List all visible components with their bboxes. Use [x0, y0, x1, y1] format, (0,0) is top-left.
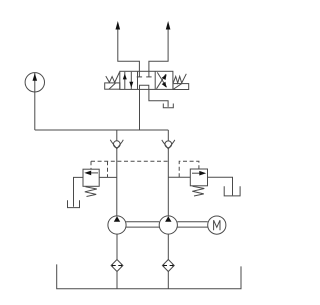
check valve CV1	[110, 140, 123, 149]
pump P1 (circle with up arrow)	[25, 73, 44, 130]
relief valve RV1 spring	[85, 187, 97, 197]
valve DV1 crossed arrowheads	[162, 74, 167, 87]
filter F2 inner marks	[163, 265, 174, 267]
wire RV1 outlet	[74, 177, 84, 206]
motor HM1 arrowhead	[114, 216, 120, 222]
wire B-line to actuator (up arrow right)	[149, 28, 168, 72]
shaft between HM1 and HM2	[126, 222, 159, 227]
wire pressure bus	[35, 129, 169, 131]
relief valve RV2 spring	[192, 186, 204, 196]
hydraulic motor HM1	[108, 216, 126, 234]
valve DV1 left position parallel arrows	[125, 72, 132, 89]
valve DV1 left position arrowheads	[123, 74, 134, 88]
wire HM2 suction	[167, 234, 169, 259]
wire F1 to reservoir	[116, 272, 118, 289]
relief valve RV2 body	[190, 169, 207, 186]
wire F2 to reservoir	[167, 272, 169, 289]
spring left end of DV1	[106, 72, 120, 82]
pilot dashed line main	[91, 160, 168, 162]
hydraulic motor HM2	[159, 216, 177, 234]
reservoir (bottom tank)	[57, 264, 241, 288]
shaft between HM2 and M	[177, 222, 207, 227]
relief valve RV1 body	[83, 169, 99, 186]
wire HM1 suction	[116, 234, 118, 259]
valve DV1 right position crossed arrows	[157, 72, 167, 88]
spring right end of DV1	[173, 74, 186, 83]
wire A-line to actuator (up arrow left)	[118, 28, 140, 72]
check valve CV2	[162, 140, 175, 149]
wire left branch upper	[116, 130, 118, 141]
wire RV2 inlet	[168, 176, 190, 178]
directional control valve DV1 body (3 positions)	[120, 71, 173, 89]
tank symbol RV2	[224, 186, 240, 196]
tank symbol at DV1 drain	[163, 104, 173, 108]
filter F2 (diamond)	[162, 260, 174, 272]
pilot dashed drop to RV1 top	[90, 161, 92, 169]
wire right branch upper	[167, 130, 169, 141]
wire right branch middle	[167, 149, 169, 216]
solenoid left end of DV1	[105, 83, 120, 89]
filter F1 inner marks	[112, 265, 123, 267]
arrowhead A-line	[116, 21, 121, 30]
pilot dashed tap left inlet	[107, 161, 109, 177]
wire T-drain from DV1	[149, 89, 168, 107]
arrowhead B-line	[166, 21, 171, 30]
wire P-line from DV1 to bus	[139, 89, 141, 130]
wire RV2 outlet	[208, 177, 233, 195]
wire RV1 inlet	[99, 176, 117, 178]
electric motor M circle	[208, 216, 226, 234]
pilot dashed right loop	[179, 161, 199, 177]
relief valve RV1 arrow	[88, 172, 98, 174]
pump P1 arrowhead	[33, 73, 38, 81]
tank symbol RV1	[68, 200, 80, 207]
filter F1 (diamond)	[111, 260, 123, 272]
motor HM2 arrowhead	[165, 216, 171, 222]
relief valve RV2 arrow	[192, 172, 203, 174]
motor M label	[214, 220, 220, 230]
valve DV1 center position blocked ports	[137, 71, 152, 89]
wire left branch middle	[116, 149, 118, 216]
solenoid right end of DV1	[173, 84, 189, 90]
